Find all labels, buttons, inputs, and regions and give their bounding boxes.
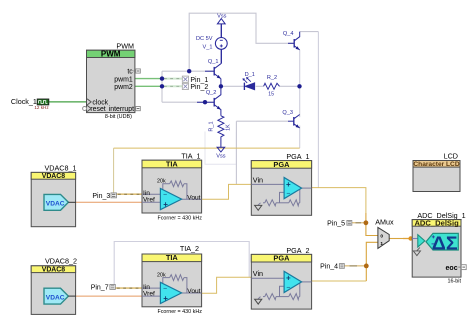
svg-text:Vin: Vin — [253, 175, 263, 184]
svg-text:+: + — [163, 294, 168, 303]
svg-text:ΔΣ: ΔΣ — [432, 232, 458, 253]
svg-text:+: + — [286, 180, 291, 189]
svg-text:Vin: Vin — [253, 269, 263, 278]
svg-text:interrupt: interrupt — [109, 106, 134, 113]
svg-text:Vout: Vout — [187, 194, 200, 201]
svg-text:20k: 20k — [157, 272, 166, 278]
svg-text:AMux: AMux — [375, 218, 394, 227]
svg-text:Q_1: Q_1 — [208, 59, 219, 65]
svg-text:Pin_1: Pin_1 — [190, 77, 208, 84]
svg-text:VDAC: VDAC — [46, 294, 65, 301]
svg-text:TIA_1: TIA_1 — [181, 152, 200, 161]
svg-text:VDAC8: VDAC8 — [42, 267, 66, 274]
svg-text:eoc: eoc — [446, 265, 458, 272]
svg-text:TIA_2: TIA_2 — [180, 244, 199, 253]
svg-text:VDAC8_2: VDAC8_2 — [45, 257, 77, 266]
svg-text:R_1: R_1 — [208, 121, 214, 131]
svg-text:Pin_4: Pin_4 — [320, 264, 338, 271]
svg-text:−: − — [286, 284, 290, 291]
svg-text:DC 5V: DC 5V — [196, 36, 213, 42]
svg-text:PGA: PGA — [273, 254, 290, 263]
svg-text:Q_2: Q_2 — [206, 90, 217, 96]
svg-text:−: − — [163, 285, 167, 292]
svg-text:8-bit (UDB): 8-bit (UDB) — [105, 114, 132, 120]
svg-text:ADC_DelSig: ADC_DelSig — [414, 218, 459, 227]
svg-text:pwm1: pwm1 — [114, 76, 133, 83]
svg-text:TIA: TIA — [166, 159, 179, 168]
svg-text:1: 1 — [380, 241, 383, 247]
svg-text:Fcorner = 430 kHz: Fcorner = 430 kHz — [157, 309, 202, 315]
svg-text:Clock_1: Clock_1 — [11, 97, 37, 106]
svg-text:Pin_7: Pin_7 — [91, 284, 109, 291]
svg-text:Vref: Vref — [143, 197, 155, 204]
svg-text:V_1: V_1 — [203, 45, 213, 51]
svg-text:Fcorner = 430 kHz: Fcorner = 430 kHz — [157, 215, 202, 221]
svg-text:PGA_2: PGA_2 — [286, 246, 309, 255]
svg-text:PGA_1: PGA_1 — [286, 152, 309, 161]
svg-text:−: − — [286, 191, 290, 198]
svg-text:Pin_3: Pin_3 — [92, 193, 110, 200]
svg-text:Vss: Vss — [216, 154, 226, 160]
svg-text:12 kHz: 12 kHz — [34, 105, 49, 110]
svg-text:15: 15 — [268, 92, 274, 98]
svg-text:PWM: PWM — [101, 49, 121, 58]
svg-text:VDAC: VDAC — [46, 201, 65, 208]
svg-text:1K: 1K — [225, 124, 231, 131]
svg-text:Q_3: Q_3 — [282, 110, 293, 116]
svg-text:tc: tc — [127, 69, 133, 76]
svg-text:16-bit: 16-bit — [448, 278, 462, 284]
svg-text:Q_4: Q_4 — [283, 31, 294, 37]
svg-text:pwm2: pwm2 — [114, 84, 133, 91]
svg-text:PGA: PGA — [273, 160, 290, 169]
svg-text:TIA: TIA — [166, 253, 179, 262]
svg-text:0: 0 — [380, 234, 383, 240]
svg-text:Vout: Vout — [187, 288, 200, 295]
svg-text:+: + — [163, 200, 168, 209]
svg-text:VDAC8_1: VDAC8_1 — [45, 163, 77, 172]
svg-text:Vss: Vss — [217, 14, 227, 20]
svg-text:VDAC8: VDAC8 — [42, 173, 66, 180]
svg-text:Vref: Vref — [143, 290, 155, 297]
svg-text:D_1: D_1 — [245, 72, 255, 78]
svg-text:LCD: LCD — [444, 152, 458, 161]
svg-text:−: − — [163, 192, 167, 199]
svg-text:+: + — [286, 274, 291, 283]
svg-text:Pin_5: Pin_5 — [327, 221, 345, 228]
svg-text:PWM: PWM — [116, 42, 134, 51]
svg-text:reset: reset — [90, 106, 105, 113]
svg-text:R_2: R_2 — [267, 75, 277, 81]
svg-text:Character LCD: Character LCD — [413, 161, 459, 168]
svg-text:20k: 20k — [157, 179, 166, 185]
